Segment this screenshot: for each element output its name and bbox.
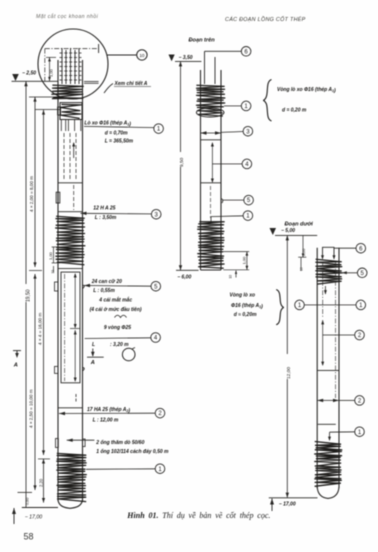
svg-text:Xem chi tiết A: Xem chi tiết A <box>114 80 148 87</box>
note ong tham do <box>67 439 169 456</box>
svg-text:12,00: 12,00 <box>286 367 292 379</box>
svg-text:10: 10 <box>229 275 233 279</box>
baseline -6.00 <box>176 270 199 280</box>
left pile outline <box>58 60 83 508</box>
dim tick 0,60 <box>18 492 33 507</box>
svg-text:Φ16 (thép A1): Φ16 (thép A1) <box>231 303 263 310</box>
right top coil <box>316 259 343 284</box>
page number 58 <box>24 532 34 542</box>
mid dim arrows + circle 4 <box>211 142 252 183</box>
svg-text:58: 58 <box>24 532 34 542</box>
note vong lo xo upper <box>263 80 336 122</box>
svg-text:1: 1 <box>359 303 363 309</box>
svg-text:10: 10 <box>139 53 145 58</box>
bars below sleeve <box>61 120 81 132</box>
svg-text:9,50: 9,50 <box>179 157 185 167</box>
joint line 268.6 <box>58 268 83 270</box>
tube bumps <box>56 439 86 448</box>
svg-text:10: 10 <box>51 270 55 274</box>
svg-text:2,20: 2,20 <box>39 478 44 487</box>
right pile outline <box>317 248 339 499</box>
svg-text:− 17,00: − 17,00 <box>25 515 43 521</box>
inner dim arrows <box>70 273 80 382</box>
leader bottom circle 1 <box>86 464 165 474</box>
baseline -17.00 <box>12 508 58 525</box>
leader circle 6 right <box>334 243 366 253</box>
sleeve coupling box <box>58 103 82 120</box>
sleeve coil <box>60 104 81 118</box>
svg-text:L: L <box>92 342 95 348</box>
svg-text:4: 4 <box>245 162 249 168</box>
svg-text:L : 0,55m: L : 0,55m <box>93 288 115 294</box>
svg-text:12 H A 25: 12 H A 25 <box>93 205 115 211</box>
right bottom coil <box>315 442 342 487</box>
small dims 2,00 and 10 <box>298 235 306 271</box>
label doan tren <box>189 38 216 44</box>
dim 1,00 mid right <box>223 252 249 270</box>
right joint 370.4 <box>317 369 339 371</box>
leader circle 6 mid <box>205 47 251 57</box>
dim 1,00 at coil2 <box>48 247 60 274</box>
header cac doan long cot thep <box>225 16 306 23</box>
mid coupling ring <box>196 107 224 117</box>
leader circle 4 <box>85 333 161 349</box>
leader circle 1 mid-bot <box>211 211 253 222</box>
svg-text:4 cái mắt mắc: 4 cái mắt mắc <box>98 297 132 304</box>
dim 1,00 in detail <box>46 57 56 81</box>
level -5.00 <box>270 228 318 235</box>
mid joint 182.8 <box>201 182 222 184</box>
svg-text:4: 4 <box>154 336 158 342</box>
label doan duoi <box>285 222 314 228</box>
leader circle 2 right-upper <box>323 330 365 340</box>
level marker -2.50 <box>12 71 59 82</box>
svg-text:9 vòng Φ25: 9 vòng Φ25 <box>104 325 131 331</box>
dashed bars mid <box>64 133 76 180</box>
note lo xo phi16 + circle 1 <box>84 120 163 144</box>
note vong lo xo lower <box>230 293 264 319</box>
second spiral coil <box>56 216 85 264</box>
svg-text:3: 3 <box>246 129 250 135</box>
detail circle A <box>38 29 108 99</box>
joint line 211.7 <box>58 211 83 213</box>
dim line 8,00 upper <box>29 97 58 267</box>
svg-text:− 17,00: − 17,00 <box>279 502 296 508</box>
svg-text:: 3,20 m: : 3,20 m <box>110 342 129 348</box>
svg-text:3: 3 <box>155 212 159 218</box>
svg-text:Đoạn trên: Đoạn trên <box>189 38 216 44</box>
svg-text:1,00: 1,00 <box>242 256 247 265</box>
svg-text:− 6,00: − 6,00 <box>177 275 191 281</box>
anchor staple <box>321 247 336 259</box>
svg-text:1: 1 <box>244 104 248 110</box>
svg-text:5: 5 <box>247 198 251 204</box>
width arrow + circle 3 mid <box>201 126 253 136</box>
svg-text:1,00: 1,00 <box>48 251 53 260</box>
svg-text:1: 1 <box>298 303 302 309</box>
arrows below right coil <box>324 286 327 295</box>
arrow in pile up <box>72 142 75 158</box>
dim line 9,50 <box>179 61 185 270</box>
note 12HA25 + circle 3 <box>81 205 162 221</box>
leader circle 1 right-bottom <box>328 427 364 441</box>
ties at pile head <box>60 53 82 80</box>
svg-text:Đoạn dưới: Đoạn dưới <box>285 222 314 228</box>
joint line 407.8 <box>58 407 83 409</box>
lifting hooks lower <box>55 366 85 373</box>
svg-text:4 × 2,50 = 10,00 m: 4 × 2,50 = 10,00 m <box>29 389 34 428</box>
svg-text:− 3,50: − 3,50 <box>179 55 193 61</box>
svg-text:2 ống thăm dò 50/60: 2 ống thăm dò 50/60 <box>95 439 144 446</box>
svg-text:L : 12,00 m: L : 12,00 m <box>93 418 119 424</box>
mid joint 139.8 <box>201 139 222 141</box>
bottom spiral coil <box>57 453 87 501</box>
svg-text:2,00: 2,00 <box>302 249 306 256</box>
svg-text:10: 10 <box>300 267 304 271</box>
svg-text:d = 0,70m: d = 0,70m <box>105 131 128 137</box>
mid pile bars <box>205 51 216 84</box>
section A marker left <box>13 351 21 369</box>
width arrows + circle 2 right-lower <box>317 396 364 406</box>
svg-text:A: A <box>13 363 18 369</box>
svg-text:A: A <box>90 360 95 366</box>
mid pile outline <box>201 70 222 270</box>
svg-text:d = 0,20 m: d = 0,20 m <box>282 108 307 114</box>
svg-text:0,60: 0,60 <box>26 498 30 505</box>
svg-text:1: 1 <box>157 127 161 133</box>
double tick at -2.50 right <box>84 82 99 84</box>
hook + circle 5 mid <box>221 195 253 205</box>
dim line 16,00 <box>35 110 60 456</box>
svg-text:2: 2 <box>158 411 162 417</box>
top spiral coil <box>52 85 84 99</box>
svg-text:Hình 01. Thí dụ về bản vẽ cốt: Hình 01. Thí dụ về bản vẽ cốt thép cọc. <box>126 511 270 520</box>
svg-text:Vòng lò xo Φ16 (thép A1): Vòng lò xo Φ16 (thép A1) <box>277 87 336 94</box>
dim 2,20 bottom <box>38 459 50 503</box>
callout circle 10 top <box>107 50 147 60</box>
note 17HA25 + circle 2 <box>59 407 165 423</box>
note 24 can cu + circle 5 <box>84 279 161 294</box>
weld circle symbol <box>122 348 135 361</box>
short line 424 <box>318 423 336 425</box>
svg-text:1: 1 <box>158 467 162 473</box>
protruding bars top <box>62 48 79 84</box>
svg-text:4 × 4 = 16,00 m: 4 × 4 = 16,00 m <box>38 313 43 345</box>
dashes below box <box>75 394 77 403</box>
title: mat cat coc khoan nhoi <box>36 13 99 20</box>
brace + circles 1-1 right <box>276 290 365 325</box>
dash-dot frame in detail <box>45 44 99 81</box>
joint line 183 <box>58 182 83 184</box>
svg-text:1,00: 1,00 <box>49 68 54 77</box>
svg-text:Mặt cắt cọc khoan nhồi: Mặt cắt cọc khoan nhồi <box>36 13 99 20</box>
note 4 cai mat mac <box>90 297 142 318</box>
svg-text:2: 2 <box>358 399 362 405</box>
mid top coil <box>196 85 225 107</box>
dim 10 mid tiny <box>229 271 238 279</box>
svg-text:4 × 2,00 = 8,00 m: 4 × 2,00 = 8,00 m <box>29 176 34 212</box>
dim line 19,50 <box>24 81 31 492</box>
svg-text:6: 6 <box>244 49 248 55</box>
svg-text:1 ống 102/114 cách đáy 0,50: 1 ống 102/114 cách đáy 0,50 m <box>96 448 169 455</box>
baseline right -17.00 <box>269 498 318 511</box>
leader circle 1 mid-top <box>224 101 251 111</box>
svg-text:5: 5 <box>154 284 158 290</box>
svg-text:(4 cái ở mức đầu tiên): (4 cái ở mức đầu tiên) <box>90 307 142 313</box>
svg-text:19,50: 19,50 <box>26 289 32 302</box>
level -3.50 <box>169 55 202 62</box>
mid dashed center <box>210 186 212 218</box>
svg-text:− 2,50: − 2,50 <box>22 71 36 77</box>
lifting hooks upper <box>55 282 85 291</box>
svg-text:24 can cữ 20: 24 can cữ 20 <box>91 279 122 285</box>
figure caption <box>126 511 270 520</box>
svg-text:5: 5 <box>361 271 365 277</box>
section A marker right <box>87 349 104 366</box>
note xem chi tiet A <box>104 80 151 93</box>
splice sleeve hooks <box>56 185 73 210</box>
svg-text:d ≈ 0,20m: d ≈ 0,20m <box>234 312 257 318</box>
segment arrow pair right <box>321 320 324 366</box>
svg-text:L : 3,50m: L : 3,50m <box>95 215 117 221</box>
svg-text:1: 1 <box>246 214 250 220</box>
dim line 12,00 <box>286 235 292 497</box>
inner box segment <box>61 272 80 383</box>
svg-text:1: 1 <box>358 430 362 436</box>
svg-text:CÁC ĐOẠN LỒNG CỐT THÉP: CÁC ĐOẠN LỒNG CỐT THÉP <box>225 16 306 23</box>
dim line 10,00 lower <box>29 271 43 491</box>
svg-text:L = 365,50m: L = 365,50m <box>105 138 134 144</box>
note 9 vong phi25 <box>104 325 131 331</box>
mid bottom coil <box>198 222 225 268</box>
svg-text:− 5,00: − 5,00 <box>281 228 295 234</box>
svg-text:Vòng lò xo: Vòng lò xo <box>230 293 256 299</box>
svg-text:6: 6 <box>359 246 363 252</box>
leader circle 5 right <box>342 268 367 278</box>
svg-text:2: 2 <box>358 333 362 339</box>
right dash-dot centerlines <box>323 262 336 398</box>
